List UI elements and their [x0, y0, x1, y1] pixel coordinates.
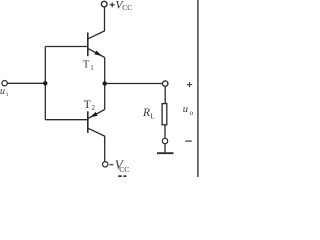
svg-text:u: u: [183, 104, 188, 115]
svg-text:T: T: [83, 60, 90, 71]
svg-text:CC: CC: [119, 165, 129, 174]
svg-text:i: i: [6, 91, 8, 98]
svg-text:1: 1: [90, 64, 94, 72]
svg-text:CC: CC: [122, 3, 132, 12]
svg-text:T: T: [84, 99, 91, 111]
svg-text:u: u: [0, 86, 5, 97]
svg-text:R: R: [142, 107, 150, 119]
svg-text:L: L: [150, 112, 154, 120]
svg-text:o: o: [190, 109, 194, 117]
svg-text:2: 2: [92, 104, 96, 112]
